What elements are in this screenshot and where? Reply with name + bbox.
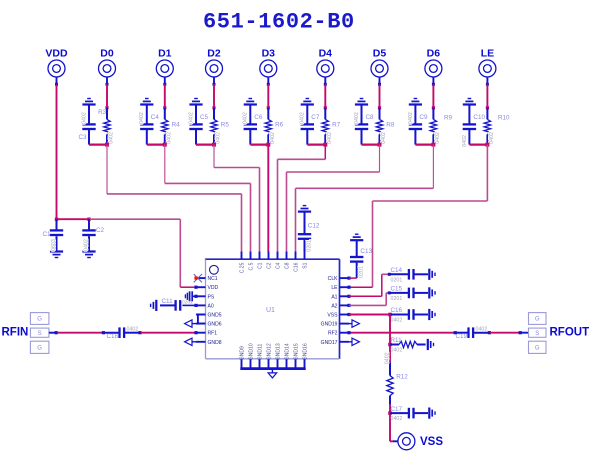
svg-text:VSS: VSS xyxy=(327,313,338,319)
ground left of C11 xyxy=(155,300,157,311)
power GND arrow at GND6 xyxy=(192,323,198,325)
wire bottom GND comb xyxy=(240,367,305,370)
no-ERC marker on NC1 xyxy=(194,274,202,282)
pin right GND19 xyxy=(340,323,350,325)
svg-text:0402: 0402 xyxy=(381,132,387,144)
svg-text:C.5: C.5 xyxy=(249,262,255,270)
svg-text:RF2: RF2 xyxy=(328,331,338,337)
wire D1 to U1 pin xyxy=(164,145,166,184)
capacitor C1 xyxy=(50,219,63,251)
svg-text:0402: 0402 xyxy=(435,132,441,144)
power GND arrow at GND8 xyxy=(192,341,196,343)
pin junction xyxy=(194,286,197,289)
svg-text:0402: 0402 xyxy=(127,326,139,332)
capacitor C2 xyxy=(82,219,95,251)
svg-text:0201: 0201 xyxy=(391,296,403,302)
svg-text:0402: 0402 xyxy=(462,135,468,147)
wire A1 to C14 xyxy=(349,295,382,297)
wire LE pad to R10 xyxy=(486,77,488,85)
svg-text:GND13: GND13 xyxy=(276,343,282,360)
wire D5 pad to R8 xyxy=(379,77,381,85)
svg-text:D2: D2 xyxy=(207,48,221,60)
svg-text:0402: 0402 xyxy=(109,132,115,144)
svg-text:0402: 0402 xyxy=(270,132,276,144)
svg-text:C1: C1 xyxy=(43,231,52,238)
wire RFIN to C18 xyxy=(49,332,57,334)
svg-text:G: G xyxy=(535,346,540,352)
connector P-D6 xyxy=(425,60,442,77)
wire D1 pad to R4 xyxy=(164,77,166,85)
ground below C1 xyxy=(50,250,63,252)
pin left RF1 xyxy=(196,332,206,334)
ground above C4 xyxy=(140,103,153,105)
capacitor C16 xyxy=(390,309,428,320)
junction xyxy=(105,143,109,147)
svg-text:G: G xyxy=(535,317,540,323)
svg-text:0603: 0603 xyxy=(51,239,57,251)
ground above C12 xyxy=(298,211,311,213)
svg-text:C2: C2 xyxy=(267,262,273,269)
pin left GND8 xyxy=(196,341,206,343)
svg-text:0402: 0402 xyxy=(391,416,403,422)
svg-text:GND9: GND9 xyxy=(240,346,246,360)
ground above C6 xyxy=(244,103,257,105)
connector P-D5 xyxy=(371,60,388,77)
connector P-D3 xyxy=(260,60,277,77)
svg-text:D3: D3 xyxy=(262,48,276,60)
svg-text:C5: C5 xyxy=(200,114,209,121)
capacitor C9 xyxy=(409,105,422,145)
pin top C16 xyxy=(295,252,297,260)
wire C10 to R10 junction xyxy=(469,144,487,146)
svg-text:D1: D1 xyxy=(158,48,172,60)
wire C7 to R7 junction xyxy=(307,144,325,146)
svg-text:0402: 0402 xyxy=(384,352,390,364)
svg-text:C14: C14 xyxy=(391,267,403,274)
svg-text:LE: LE xyxy=(331,285,338,291)
svg-text:0402: 0402 xyxy=(166,132,172,144)
capacitor C4 xyxy=(140,105,153,145)
svg-text:GND15: GND15 xyxy=(294,343,300,360)
junction C17 xyxy=(388,411,392,415)
capacitor C12 xyxy=(298,212,311,252)
ground above C10 xyxy=(463,103,476,105)
junction xyxy=(388,313,392,317)
ground right of C14 xyxy=(428,269,430,280)
svg-text:A2: A2 xyxy=(331,303,337,309)
pin top C.25 xyxy=(241,252,243,260)
pin junction xyxy=(347,295,350,298)
svg-text:C4: C4 xyxy=(151,114,160,121)
wire A2 to C15 xyxy=(349,304,386,306)
svg-text:GND19: GND19 xyxy=(321,322,338,328)
wire VDD pad to rail xyxy=(56,77,58,85)
pin bottom GND10 xyxy=(250,359,252,368)
wire C9 to R9 junction xyxy=(415,144,433,146)
capacitor C6 xyxy=(244,105,257,145)
junction R11 xyxy=(388,343,392,347)
connector VSS xyxy=(398,433,415,450)
wire GND5-GND6 bracket xyxy=(198,315,206,324)
ground above C13 xyxy=(350,239,363,241)
pin top C1 xyxy=(259,252,261,260)
pin junction xyxy=(347,304,350,307)
pin bottom GND9 xyxy=(241,359,243,368)
connector P-D1 xyxy=(156,60,173,77)
svg-text:R11: R11 xyxy=(391,337,403,344)
wire D4 to U1 pin xyxy=(324,145,326,160)
wire C8 to R8 junction xyxy=(362,144,380,146)
pin junction RF1 xyxy=(194,331,197,334)
wire C3 to R3 junction xyxy=(89,144,107,146)
svg-text:S: S xyxy=(38,331,42,337)
svg-text:0402: 0402 xyxy=(489,132,495,144)
svg-text:C10: C10 xyxy=(473,114,485,121)
svg-text:0402: 0402 xyxy=(243,112,249,124)
svg-text:0402: 0402 xyxy=(327,132,333,144)
svg-text:C16: C16 xyxy=(294,262,300,271)
wire VDD rail horizontal xyxy=(57,218,90,220)
svg-text:0201: 0201 xyxy=(182,299,193,305)
svg-text:C8: C8 xyxy=(366,114,375,121)
svg-text:C.25: C.25 xyxy=(240,262,246,273)
capacitor C17 xyxy=(390,408,428,419)
wire D6 pad to R9 xyxy=(432,77,434,85)
pin top C2 xyxy=(268,252,270,260)
resistor R6 xyxy=(265,108,271,145)
svg-text:R12: R12 xyxy=(396,374,408,381)
svg-text:D0: D0 xyxy=(100,48,114,60)
RFOUT pad G2 xyxy=(529,341,547,353)
svg-text:C19: C19 xyxy=(456,333,468,340)
wire R12 to VSS pad xyxy=(389,404,391,441)
svg-text:C18: C18 xyxy=(107,333,119,340)
capacitor C11 xyxy=(160,300,196,311)
capacitor C3 xyxy=(82,105,95,145)
svg-text:VDD: VDD xyxy=(208,285,219,291)
pin right LE xyxy=(340,286,350,288)
svg-text:GND10: GND10 xyxy=(249,343,255,360)
junction xyxy=(378,143,382,147)
svg-text:0402: 0402 xyxy=(216,132,222,144)
pin junction RF2 xyxy=(347,331,350,334)
junction xyxy=(266,143,270,147)
junction C1 xyxy=(55,218,58,221)
pin junction xyxy=(347,286,350,289)
pin bottom GND12 xyxy=(268,359,270,368)
svg-text:C4: C4 xyxy=(276,262,282,269)
capacitor on PS pin (0201) xyxy=(185,291,196,301)
resistor R8 xyxy=(376,108,382,145)
svg-text:0402: 0402 xyxy=(139,112,145,124)
svg-text:U1: U1 xyxy=(266,307,275,314)
ground right of C16 xyxy=(428,309,430,320)
wire D6 to U1 pin xyxy=(432,145,434,189)
wire VDD to U1 (pink) xyxy=(89,218,180,220)
wire C5 to R5 junction xyxy=(196,144,214,146)
pin right A1 xyxy=(340,295,350,297)
ground above C3 xyxy=(82,103,95,105)
wire D5 to U1 pin xyxy=(379,145,381,172)
svg-text:C13: C13 xyxy=(360,248,372,255)
pin left GND6 xyxy=(196,323,206,325)
pin right GND17 xyxy=(340,341,350,343)
svg-text:GND17: GND17 xyxy=(321,340,338,346)
connector P-VDD xyxy=(48,60,65,77)
svg-text:GND11: GND11 xyxy=(258,344,264,361)
svg-text:PS: PS xyxy=(208,294,215,300)
svg-text:C8: C8 xyxy=(285,262,291,269)
connector P-D0 xyxy=(99,60,116,77)
wire CLK to C13 xyxy=(349,277,357,279)
svg-text:R6: R6 xyxy=(275,122,284,129)
ground above C7 xyxy=(301,103,314,105)
resistor R11 xyxy=(390,341,426,347)
svg-text:C17: C17 xyxy=(391,406,403,413)
resistor R10 xyxy=(484,108,490,145)
svg-text:GND5: GND5 xyxy=(208,313,222,319)
svg-text:R8: R8 xyxy=(386,122,395,129)
pin right A2 xyxy=(340,304,350,306)
svg-text:RF1: RF1 xyxy=(208,331,218,337)
wire to VSS connector xyxy=(390,440,393,442)
wire VSS vertical rail xyxy=(389,315,391,363)
connector P-D2 xyxy=(206,60,223,77)
svg-text:A0: A0 xyxy=(208,303,214,309)
RFIN pad G0 xyxy=(30,313,49,325)
capacitor C8 xyxy=(355,105,368,145)
pin junction xyxy=(347,313,350,316)
wire C4 to R4 junction xyxy=(147,144,165,146)
svg-text:A1: A1 xyxy=(331,294,337,300)
svg-text:0402: 0402 xyxy=(84,239,90,251)
svg-text:S1: S1 xyxy=(303,262,309,268)
svg-text:0402: 0402 xyxy=(408,112,414,124)
svg-text:0201: 0201 xyxy=(391,277,403,283)
svg-text:RFOUT: RFOUT xyxy=(550,327,590,339)
wire D0 pad to R3 xyxy=(106,77,108,85)
pin 1 indicator circle xyxy=(210,265,219,274)
svg-text:VDD: VDD xyxy=(45,48,68,60)
svg-text:0201: 0201 xyxy=(359,266,365,278)
capacitor C10 xyxy=(463,105,476,145)
svg-text:0402: 0402 xyxy=(476,326,488,332)
svg-text:GND14: GND14 xyxy=(285,343,291,360)
ground above C8 xyxy=(355,103,368,105)
junction xyxy=(323,143,327,147)
wire RF2 to C19 xyxy=(349,332,455,334)
svg-text:0402: 0402 xyxy=(391,318,403,324)
svg-text:C6: C6 xyxy=(254,114,263,121)
svg-text:C16: C16 xyxy=(391,307,403,314)
svg-text:R10: R10 xyxy=(498,115,510,122)
pin bottom GND13 xyxy=(277,359,279,368)
pin top C4 xyxy=(277,252,279,260)
RFOUT pad S1 xyxy=(529,328,547,337)
svg-text:0201: 0201 xyxy=(306,240,312,252)
op-amp U1 body xyxy=(205,259,340,359)
ground below C2 xyxy=(82,250,95,252)
resistor R12 xyxy=(387,362,393,404)
svg-text:0402: 0402 xyxy=(391,348,403,354)
svg-text:C7: C7 xyxy=(311,114,320,121)
RFIN pad S1 xyxy=(30,328,49,337)
svg-text:R9: R9 xyxy=(444,115,453,122)
junction xyxy=(431,143,435,147)
pin bottom GND15 xyxy=(295,359,297,368)
pin junction xyxy=(194,295,197,298)
pin bottom GND16 xyxy=(304,359,306,368)
capacitor C14 xyxy=(388,269,428,280)
svg-text:R7: R7 xyxy=(332,122,341,129)
resistor R5 xyxy=(211,108,217,145)
pin bottom GND11 xyxy=(259,359,261,368)
junction xyxy=(212,143,216,147)
svg-text:C2: C2 xyxy=(96,227,105,234)
wire C6 to R6 junction xyxy=(250,144,268,146)
connector P-D4 xyxy=(317,60,334,77)
pin junction xyxy=(194,304,197,307)
svg-text:CLK: CLK xyxy=(328,276,338,282)
wire LE to U1 LE pin xyxy=(486,145,488,201)
svg-text:LE: LE xyxy=(481,48,494,60)
capacitor C15 xyxy=(388,288,428,299)
svg-text:VSS: VSS xyxy=(420,436,443,448)
pin right CLK xyxy=(340,277,350,279)
resistor R7 xyxy=(322,108,328,145)
svg-text:0402: 0402 xyxy=(354,112,360,124)
svg-text:R3: R3 xyxy=(98,109,107,116)
resistor R4 xyxy=(162,108,168,145)
svg-text:GND12: GND12 xyxy=(267,343,273,360)
pin left A0 xyxy=(196,304,206,306)
ground arrow below U1 xyxy=(268,373,277,378)
wire D3 to U1 pin (straight) xyxy=(267,145,269,252)
capacitor C19 xyxy=(454,327,491,338)
svg-text:C1: C1 xyxy=(258,262,264,269)
pin bottom GND14 xyxy=(286,359,288,368)
wire D3 pad to R6 xyxy=(267,77,269,85)
svg-text:0402: 0402 xyxy=(188,112,194,124)
svg-text:C15: C15 xyxy=(391,286,403,293)
svg-text:C9: C9 xyxy=(419,114,428,121)
svg-text:0402: 0402 xyxy=(300,112,306,124)
ground above C5 xyxy=(189,103,202,105)
pin left VDD xyxy=(196,286,206,288)
resistor R3 xyxy=(104,108,110,145)
svg-text:D6: D6 xyxy=(427,48,441,60)
pin left PS xyxy=(196,295,206,297)
svg-text:C11: C11 xyxy=(162,298,174,305)
connector P-LE xyxy=(479,60,496,77)
svg-text:G: G xyxy=(37,317,42,323)
ground right of R11 xyxy=(427,339,429,350)
junction xyxy=(485,143,489,147)
pin left NC1 xyxy=(196,277,206,279)
pin left GND5 xyxy=(196,314,206,316)
svg-text:D5: D5 xyxy=(373,48,387,60)
pin top C8 xyxy=(286,252,288,260)
capacitor C18 xyxy=(102,327,142,338)
pin right RF2 xyxy=(340,332,350,334)
wire D4 pad to R7 xyxy=(324,77,326,85)
junction C2 xyxy=(87,218,90,221)
pin right VSS xyxy=(340,314,350,316)
svg-text:S: S xyxy=(535,331,539,337)
svg-text:G: G xyxy=(37,346,42,352)
svg-text:D4: D4 xyxy=(319,48,333,60)
ground above C9 xyxy=(409,103,422,105)
capacitor C7 xyxy=(301,105,314,145)
wire C18 to RF1 xyxy=(140,332,196,334)
svg-text:R4: R4 xyxy=(172,122,181,129)
capacitor C13 xyxy=(350,241,363,279)
capacitor C5 xyxy=(189,105,202,145)
svg-text:0402: 0402 xyxy=(81,112,87,124)
power GND arrow at GND19 xyxy=(349,323,352,325)
wire C19 to RFOUT xyxy=(490,332,520,334)
svg-text:651-1602-B0: 651-1602-B0 xyxy=(203,10,355,35)
svg-text:R5: R5 xyxy=(221,122,230,129)
power GND arrow at GND17 xyxy=(349,341,352,343)
wire D2 pad to R5 xyxy=(213,77,215,85)
wire D0 to U1 pin xyxy=(106,145,108,194)
svg-text:C3: C3 xyxy=(79,134,88,141)
svg-text:C12: C12 xyxy=(308,223,320,230)
pin top C.5 xyxy=(250,252,252,260)
svg-text:GND6: GND6 xyxy=(208,322,222,328)
svg-text:NC1: NC1 xyxy=(208,276,218,282)
junction xyxy=(163,143,167,147)
ground right of C15 xyxy=(428,287,430,298)
RFIN pad G2 xyxy=(30,341,49,353)
wire D2 to U1 pin xyxy=(213,145,215,168)
pin junction xyxy=(347,277,350,280)
ground right of C17 xyxy=(428,408,430,419)
resistor R9 xyxy=(430,108,436,145)
svg-text:GND8: GND8 xyxy=(208,340,222,346)
wire VSS to rail xyxy=(349,314,390,316)
svg-text:RFIN: RFIN xyxy=(2,327,29,339)
RFOUT pad G0 xyxy=(529,313,547,325)
pin top S1 xyxy=(304,252,306,260)
svg-text:GND16: GND16 xyxy=(303,343,309,360)
